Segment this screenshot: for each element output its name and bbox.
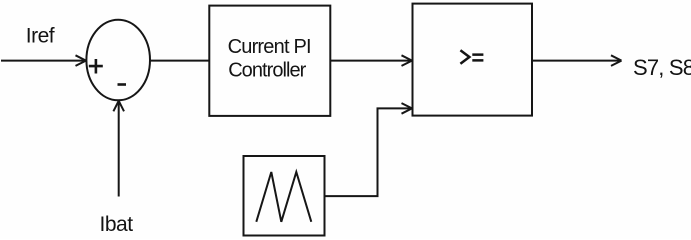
arrowhead into summing junction left bbox=[76, 55, 87, 66]
triangle wave symbol bbox=[256, 172, 311, 222]
arrowhead into comparator upper input bbox=[402, 55, 413, 66]
block Current PI Controller bbox=[209, 6, 330, 116]
svg-text:S7, S8: S7, S8 bbox=[633, 55, 691, 80]
summing junction bbox=[86, 20, 150, 101]
svg-text:Controller: Controller bbox=[228, 60, 306, 82]
svg-text:Current PI: Current PI bbox=[228, 36, 311, 58]
svg-text:Ibat: Ibat bbox=[100, 213, 134, 236]
wire comparator output bbox=[532, 60, 620, 62]
arrowhead into comparator lower input bbox=[402, 103, 413, 114]
wire summing junction to PI controller bbox=[150, 60, 210, 62]
plus sign bbox=[89, 59, 103, 74]
wire Ibat input bbox=[118, 103, 120, 197]
comparator symbol greater-than bbox=[460, 50, 469, 64]
wire Iref input bbox=[1, 60, 84, 62]
wire PI controller to comparator bbox=[331, 60, 411, 62]
comparator symbol equals bbox=[472, 55, 483, 61]
triangle wave generator block bbox=[244, 156, 325, 236]
svg-text:Iref: Iref bbox=[26, 24, 55, 47]
minus sign bbox=[118, 83, 127, 86]
wire triangle generator to comparator bbox=[325, 108, 411, 196]
arrowhead output bbox=[611, 55, 622, 66]
comparator block bbox=[413, 4, 533, 116]
arrowhead into summing junction bottom bbox=[113, 101, 124, 112]
